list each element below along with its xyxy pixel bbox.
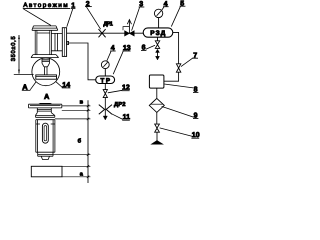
vent valve 6 <box>155 37 159 60</box>
detail neck rings <box>37 108 51 113</box>
branch pipe to ТР <box>67 43 96 80</box>
device sphere chamber <box>32 58 60 86</box>
callout 6 <box>141 45 155 52</box>
shut-off valve 7 <box>176 64 180 72</box>
callout 3 <box>132 1 145 30</box>
ДР2 exhaust arrow <box>103 116 107 120</box>
callout 1 <box>67 3 76 27</box>
device contact slot plate <box>36 75 57 79</box>
dimension 350±0,5 <box>10 35 34 74</box>
detail centre slot <box>42 123 48 143</box>
pipe valve 10 to atmosphere <box>156 132 158 141</box>
pipe valve 12 to ДР2 <box>104 98 106 116</box>
svg-text:ДР1: ДР1 <box>103 22 113 28</box>
svg-text:А: А <box>44 92 50 101</box>
callout 11 <box>112 114 131 121</box>
device right neck <box>51 33 62 50</box>
callout 9 <box>162 106 199 119</box>
detail body <box>36 120 55 153</box>
svg-text:б: б <box>78 137 82 144</box>
svg-text:РЗД: РЗД <box>150 30 165 37</box>
shut-off valve 10 <box>155 124 160 132</box>
detail bell rim <box>36 113 55 120</box>
detail dimension line <box>53 100 90 183</box>
svg-text:в: в <box>80 100 84 106</box>
label А (view arrow) <box>22 82 36 92</box>
svg-text:350±0,5: 350±0,5 <box>10 36 17 61</box>
box 8 <box>149 75 164 88</box>
detail top plate <box>29 103 62 108</box>
pipe box 8 to filter 9 <box>156 88 158 98</box>
callout 12 <box>108 85 130 93</box>
svg-text:Авторежим: Авторежим <box>23 2 67 9</box>
detail bottom rim <box>38 152 53 159</box>
restrictor ДР1 <box>99 29 106 37</box>
callout 5 <box>171 0 185 26</box>
reservoir ТР <box>96 76 115 84</box>
gauge 4 on РЗД <box>154 9 162 28</box>
device piston rod <box>45 67 48 75</box>
callout 14 <box>56 81 71 89</box>
РЗД right pipe to valve 7 <box>173 32 179 63</box>
detail bottom block <box>31 166 62 177</box>
pipe filter to valve 10 <box>156 112 158 124</box>
restrictor ДР2 <box>99 105 112 115</box>
pipe ТР to valve 12 <box>104 84 106 90</box>
callout 4 (РЗД gauge) <box>162 1 169 11</box>
svg-text:ТР: ТР <box>101 77 111 84</box>
pipe fitting on flange <box>67 42 69 45</box>
callout 7 <box>181 52 198 66</box>
device inner neck piston <box>42 59 50 67</box>
device Авторежим cap <box>32 26 58 30</box>
svg-text:ДР2: ДР2 <box>114 101 126 108</box>
callout 8 <box>164 84 198 94</box>
atmosphere symbol <box>152 141 163 145</box>
filter 9 diamond <box>149 98 164 112</box>
device body cylinder <box>35 30 51 54</box>
shut-off valve 12 <box>103 90 107 98</box>
device bottom collar <box>31 55 59 58</box>
device flange <box>62 28 66 57</box>
callout 10 <box>160 128 200 139</box>
callout 2 <box>85 1 101 29</box>
gauge 4 on ТР <box>101 61 109 76</box>
label Авторежим <box>23 2 70 25</box>
reservoir РЗД <box>143 28 173 37</box>
callout 4 (ТР gauge) <box>107 45 116 61</box>
pipe valve 7 to box 8 <box>164 72 179 81</box>
main pipe to РЗД <box>67 32 144 34</box>
callout 13 <box>113 45 131 74</box>
safety valve 3 <box>123 20 134 36</box>
